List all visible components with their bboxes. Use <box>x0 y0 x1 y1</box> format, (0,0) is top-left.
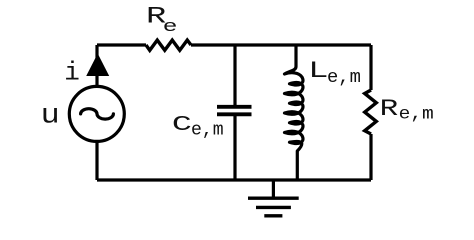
svg-text:R: R <box>380 96 399 122</box>
svg-text:e,m: e,m <box>399 105 434 125</box>
svg-text:u: u <box>41 100 60 131</box>
svg-text:e,m: e,m <box>327 68 361 88</box>
svg-text:i: i <box>64 58 80 88</box>
svg-text:L: L <box>308 58 328 84</box>
svg-text:e,m: e,m <box>191 120 224 141</box>
svg-text:C: C <box>172 113 192 137</box>
svg-text:e: e <box>163 18 178 37</box>
